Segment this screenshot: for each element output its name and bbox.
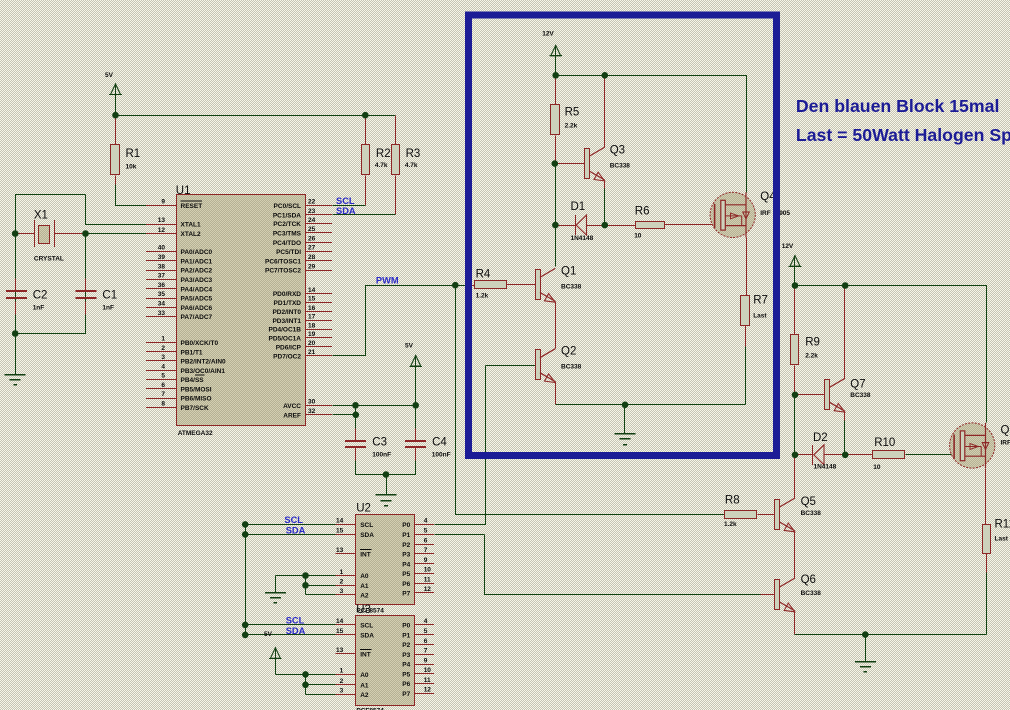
junction bottom rail / ground — [12, 330, 19, 337]
svg-text:PA2/ADC2: PA2/ADC2 — [181, 268, 213, 275]
svg-text:PD6/ICP: PD6/ICP — [276, 344, 302, 351]
svg-text:R6: R6 — [635, 206, 650, 218]
U1 pin 1 PB0/XCK/T0 — [146, 336, 218, 347]
svg-text:P3: P3 — [402, 652, 410, 659]
svg-text:SDA: SDA — [336, 206, 356, 216]
svg-text:9: 9 — [424, 657, 428, 664]
junction D2 anode — [792, 452, 799, 459]
U1 pin 36 PA4/ADC4 — [146, 282, 213, 293]
svg-text:5V: 5V — [264, 631, 273, 638]
svg-text:5: 5 — [424, 628, 428, 635]
U1 pin 32 AREF — [283, 408, 332, 419]
svg-text:7: 7 — [424, 648, 428, 655]
resistor R8 — [724, 495, 757, 528]
junction bottom rail / ground — [862, 631, 869, 638]
wire U2 A0 — [276, 575, 336, 577]
svg-text:Last = 50Watt Halogen Spot: Last = 50Watt Halogen Spot — [796, 125, 1010, 145]
svg-text:13: 13 — [336, 547, 344, 554]
svg-text:RESET: RESET — [181, 203, 203, 210]
wire Q7 emitter lead — [844, 412, 846, 421]
svg-text:29: 29 — [308, 263, 316, 270]
wire Q4 drain to R7 — [746, 238, 748, 296]
svg-text:15: 15 — [336, 528, 344, 535]
svg-text:PC2/TCK: PC2/TCK — [273, 221, 301, 228]
diode D2 — [813, 432, 837, 471]
svg-text:33: 33 — [158, 310, 166, 317]
svg-text:PB1/T1: PB1/T1 — [181, 349, 203, 356]
svg-text:14: 14 — [308, 287, 316, 294]
wire SDA net (pin23 to R3) — [333, 214, 396, 216]
wire PWM branch to R8 — [456, 286, 725, 515]
U2 pin 1 A0 — [336, 569, 369, 580]
U1 pin 22 PC0/SCL — [274, 199, 332, 210]
svg-text:36: 36 — [158, 282, 166, 289]
svg-text:PD5/OC1A: PD5/OC1A — [268, 336, 301, 343]
wire ground stem (crystal) — [15, 334, 17, 375]
svg-text:2.2k: 2.2k — [565, 123, 578, 130]
wire 12V arrow stem — [555, 56, 557, 76]
svg-text:PB2/INT2/AIN0: PB2/INT2/AIN0 — [181, 359, 227, 366]
svg-text:PD3/INT1: PD3/INT1 — [272, 318, 301, 325]
wire Q5 emitter to Q6 collector — [794, 531, 796, 579]
svg-text:PC3/TMS: PC3/TMS — [273, 231, 302, 238]
svg-text:5: 5 — [161, 373, 165, 380]
svg-text:Q8: Q8 — [1001, 425, 1010, 437]
svg-text:A0: A0 — [360, 573, 369, 580]
U1 pin 18 PD4/OC1B — [268, 322, 332, 333]
U1 pin 14 PD0/RXD — [273, 287, 332, 298]
ground (C3 C4) — [376, 495, 397, 506]
svg-text:C3: C3 — [372, 437, 387, 449]
wire R4 left lead — [469, 285, 475, 287]
svg-text:19: 19 — [308, 331, 316, 338]
U1 pin 8 PB7/SCK — [146, 401, 209, 412]
svg-text:905: 905 — [779, 210, 790, 217]
svg-text:17: 17 — [308, 314, 316, 321]
wire XTAL1 path — [86, 195, 147, 225]
svg-text:PD1/TXD: PD1/TXD — [274, 300, 302, 307]
U1 pin 12 XTAL2 — [146, 227, 201, 238]
ground (crystal circuit) — [5, 375, 26, 385]
U3 pin 10 P5 — [402, 667, 434, 678]
resistor R2 — [362, 145, 391, 175]
svg-text:SCL: SCL — [284, 515, 303, 525]
svg-text:10: 10 — [634, 233, 642, 240]
svg-text:P7: P7 — [402, 691, 410, 698]
U1 pin 20 PD6/ICP — [276, 340, 332, 351]
wire ground stem (right) — [865, 635, 867, 662]
wire U3 A2 — [306, 694, 336, 696]
wire R10 to Q8 gate — [906, 454, 954, 456]
svg-text:10: 10 — [873, 464, 881, 471]
junction U2 A1 — [302, 582, 309, 589]
U2 pin 15 SDA — [336, 528, 375, 539]
U1 pin 33 PA7/ADC7 — [146, 310, 213, 321]
svg-text:PA1/ADC1: PA1/ADC1 — [181, 258, 213, 265]
svg-text:23: 23 — [308, 208, 316, 215]
resistor R4 — [475, 269, 507, 300]
junction node 5V rail / R2 — [362, 112, 369, 119]
ground (right) — [855, 662, 876, 672]
svg-text:P1: P1 — [402, 633, 410, 640]
wire Q6 base lead — [761, 594, 775, 596]
wire Q6 emitter lead — [794, 611, 796, 635]
wire Q3 base node to D1 anode — [555, 164, 557, 226]
svg-text:20: 20 — [308, 340, 316, 347]
svg-text:Q5: Q5 — [801, 496, 816, 508]
svg-text:R3: R3 — [406, 148, 421, 160]
U1 pin 34 PA6/ADC6 — [146, 301, 213, 312]
U2 pin 14 SCL — [336, 518, 374, 529]
svg-text:18: 18 — [308, 322, 316, 329]
svg-text:100nF: 100nF — [372, 452, 391, 459]
svg-text:R2: R2 — [376, 148, 391, 160]
svg-text:U2: U2 — [356, 503, 371, 515]
wire AVCC to 5V — [333, 405, 416, 407]
junction emitter rail / ground — [622, 402, 629, 409]
svg-text:9: 9 — [161, 198, 165, 205]
U1 pin 28 PC6/TOSC1 — [265, 254, 332, 265]
junction Q7 emitter / D2 / R10 — [842, 452, 849, 459]
svg-text:12: 12 — [158, 227, 166, 234]
U1 pin 37 PA3/ADC3 — [146, 273, 213, 284]
power 5V arrow (AVCC) — [405, 343, 422, 367]
svg-text:28: 28 — [308, 254, 316, 261]
U1 pin 19 PD5/OC1A — [268, 331, 332, 342]
wire D2 to R10 — [825, 454, 873, 456]
svg-text:16: 16 — [308, 305, 316, 312]
U1 pin 25 PC3/TMS — [273, 226, 332, 237]
svg-text:4.7k: 4.7k — [405, 162, 418, 169]
svg-text:13: 13 — [158, 217, 166, 224]
resistor R3 — [392, 145, 421, 175]
U3 pin 4 P0 — [402, 618, 434, 629]
svg-text:P4: P4 — [402, 662, 410, 669]
svg-text:Q3: Q3 — [610, 145, 625, 157]
svg-text:PC0/SCL: PC0/SCL — [274, 203, 301, 210]
svg-text:PD7/OC2: PD7/OC2 — [273, 353, 301, 360]
svg-text:PD0/RXD: PD0/RXD — [273, 291, 301, 298]
U3 pin 2 A1 — [336, 678, 369, 689]
svg-text:C2: C2 — [33, 289, 48, 301]
wire SCL net (pin22 to R2) — [333, 205, 366, 207]
svg-text:BC338: BC338 — [610, 163, 631, 170]
svg-text:24: 24 — [308, 217, 316, 224]
U1 pin 23 PC1/SDA — [273, 208, 332, 219]
svg-text:X1: X1 — [34, 210, 48, 222]
U3 pin 11 P6 — [402, 677, 434, 688]
wire 5V horizontal rail — [116, 115, 396, 117]
MOSFET Q8 IRF9540 — [950, 423, 1010, 468]
wire Q3 emitter to R6 node — [604, 189, 606, 226]
svg-text:PA3/ADC3: PA3/ADC3 — [181, 277, 213, 284]
svg-text:38: 38 — [158, 263, 166, 270]
wire Q2 collector — [555, 345, 557, 349]
U1 pin 40 PA0/ADC0 — [146, 245, 213, 256]
U1 pin 6 PB5/MOSI — [146, 382, 212, 393]
ground (block) — [615, 434, 636, 445]
wire SCL to U3 — [246, 525, 336, 625]
wire U3 A0 — [276, 674, 336, 676]
junction R9 / Q7 base — [792, 392, 799, 399]
U1 pin 5 PB4/SS — [146, 373, 205, 384]
svg-text:PC4/TDO: PC4/TDO — [273, 240, 301, 247]
U1 pin 17 PD3/INT1 — [272, 314, 332, 325]
wire Q7 base node to D2 anode — [794, 395, 796, 455]
power 5V arrow (U3 address) — [264, 631, 282, 659]
svg-text:PB7/SCK: PB7/SCK — [181, 405, 209, 412]
svg-text:BC338: BC338 — [801, 510, 822, 517]
svg-text:PA6/ADC6: PA6/ADC6 — [181, 305, 213, 312]
svg-text:14: 14 — [336, 618, 344, 625]
wire R1 to RESET pin — [116, 185, 147, 206]
svg-text:8: 8 — [161, 401, 165, 408]
svg-text:P4: P4 — [402, 561, 410, 568]
U1 pin 30 AVCC — [283, 399, 332, 410]
svg-text:10: 10 — [424, 567, 432, 574]
U1 pin 24 PC2/TCK — [273, 217, 332, 228]
svg-text:A1: A1 — [360, 583, 369, 590]
diode D1 — [571, 201, 594, 242]
svg-text:32: 32 — [308, 408, 316, 415]
wire X1 right lead — [55, 233, 86, 235]
svg-text:1.2k: 1.2k — [476, 293, 489, 300]
IC U2 PCF8574 body — [356, 503, 415, 615]
svg-text:13: 13 — [336, 647, 344, 654]
wire R4 to Q1 base — [507, 284, 536, 286]
wire C1 top lead — [85, 279, 87, 292]
svg-text:37: 37 — [158, 273, 166, 280]
U3 pin 6 P2 — [402, 638, 434, 649]
svg-text:35: 35 — [158, 291, 166, 298]
transistor Q3 — [585, 145, 631, 181]
svg-text:ATMEGA32: ATMEGA32 — [178, 430, 213, 437]
svg-text:34: 34 — [158, 301, 166, 308]
svg-text:4: 4 — [424, 618, 428, 625]
svg-text:4.7k: 4.7k — [375, 162, 388, 169]
wire C1 to bottom rail — [85, 315, 87, 334]
wire 5V node to C4 — [415, 406, 417, 429]
svg-text:26: 26 — [308, 235, 316, 242]
U1 pin 26 PC4/TDO — [273, 235, 332, 246]
wire U2 P1 branch — [435, 534, 485, 536]
svg-text:A0: A0 — [360, 672, 369, 679]
svg-text:3: 3 — [340, 588, 344, 595]
svg-text:INT: INT — [360, 652, 371, 659]
wire R9 bottom lead — [794, 366, 796, 395]
junction U3 A1 — [302, 682, 309, 689]
junction crystal left node — [12, 230, 19, 237]
junction AVCC / C3 — [352, 402, 359, 409]
capacitor C3 — [345, 437, 391, 459]
svg-text:C1: C1 — [102, 289, 117, 301]
svg-text:PA5/ADC5: PA5/ADC5 — [181, 296, 213, 303]
wire R1 bottom lead — [115, 176, 117, 185]
wire U2 P0 to Q2 base — [435, 366, 486, 525]
svg-text:P1: P1 — [402, 532, 410, 539]
svg-text:27: 27 — [308, 245, 316, 252]
wire C4 bottom lead — [415, 448, 417, 461]
junction node 5V rail / R1 — [112, 112, 119, 119]
svg-text:U3: U3 — [356, 604, 371, 616]
svg-text:PA7/ADC7: PA7/ADC7 — [181, 314, 213, 321]
U3 pin 9 P4 — [402, 657, 434, 668]
svg-text:PB0/XCK/T0: PB0/XCK/T0 — [181, 340, 219, 347]
svg-text:2: 2 — [340, 678, 344, 685]
wire Q7 collector — [844, 286, 846, 379]
junction 12V rail / R5 — [552, 72, 559, 79]
svg-text:SDA: SDA — [286, 525, 306, 535]
U1 pin 39 PA1/ADC1 — [146, 254, 213, 265]
svg-text:12V: 12V — [542, 31, 554, 38]
svg-text:P5: P5 — [402, 671, 410, 678]
svg-text:IRF9540S: IRF9540S — [1001, 440, 1010, 447]
svg-text:XTAL1: XTAL1 — [181, 222, 201, 229]
junction SCL bus U2 — [242, 521, 249, 528]
wire U2 A0-A2 tie — [305, 576, 307, 595]
capacitor C2 — [6, 289, 47, 311]
wire R5 bottom lead — [555, 136, 557, 164]
svg-text:39: 39 — [158, 254, 166, 261]
svg-text:CRYSTAL: CRYSTAL — [34, 256, 64, 263]
U1 pin 9 RESET — [146, 198, 202, 209]
svg-text:6: 6 — [424, 638, 428, 645]
svg-text:12V: 12V — [782, 243, 794, 250]
junction SCL bus U3 — [242, 622, 249, 629]
svg-text:14: 14 — [336, 518, 344, 525]
wire 12V arrow stem (right) — [794, 267, 796, 286]
junction U2 A0 — [302, 572, 309, 579]
svg-text:12: 12 — [424, 687, 432, 694]
junction crystal right node — [82, 230, 89, 237]
wire R7 to emitter rail — [745, 347, 747, 405]
svg-text:P6: P6 — [402, 581, 410, 588]
U3 pin 7 P3 — [402, 648, 434, 659]
wire ground stem (C3 C4) — [386, 475, 388, 495]
wire R5 top lead — [555, 76, 557, 105]
svg-text:R8: R8 — [725, 495, 740, 507]
svg-text:Last: Last — [995, 536, 1009, 543]
svg-text:10k: 10k — [126, 164, 137, 171]
svg-text:R5: R5 — [565, 107, 580, 119]
svg-text:Q1: Q1 — [561, 266, 576, 278]
svg-text:100nF: 100nF — [432, 452, 451, 459]
svg-text:SCL: SCL — [286, 616, 305, 626]
U1 pin 13 XTAL1 — [146, 217, 201, 228]
wire C3/C4 bottom rail — [356, 461, 416, 475]
svg-text:P2: P2 — [402, 542, 410, 549]
svg-text:7: 7 — [424, 547, 428, 554]
U1 pin 38 PA2/ADC2 — [146, 263, 213, 274]
wire Q3 emitter lead — [604, 181, 606, 189]
wire C2 top lead — [15, 279, 17, 292]
svg-text:A2: A2 — [360, 692, 369, 699]
svg-text:22: 22 — [308, 199, 316, 206]
junction Q3 emitter / D1 / R6 — [602, 222, 609, 229]
wire C2 to bottom rail — [15, 315, 17, 334]
U1 pin 15 PD1/TXD — [274, 296, 332, 307]
resistor R5 — [551, 105, 580, 135]
wire XTAL2 path — [86, 233, 147, 235]
U2 pin 5 P1 — [402, 528, 434, 539]
svg-text:SCL: SCL — [336, 196, 355, 206]
transistor Q7 — [825, 378, 871, 412]
wire 5V arrow to rail — [115, 95, 117, 116]
svg-text:D2: D2 — [813, 432, 828, 444]
junction AVCC / 5V / C4 — [412, 402, 419, 409]
svg-text:BC338: BC338 — [801, 590, 822, 597]
wire R3 top lead — [395, 116, 397, 145]
svg-text:1: 1 — [161, 336, 165, 343]
resistor R9 — [791, 335, 820, 365]
U1 pin 3 PB2/INT2/AIN0 — [146, 354, 226, 365]
svg-text:5: 5 — [424, 528, 428, 535]
wire U2 A0 to ground — [275, 576, 277, 593]
svg-text:2.2k: 2.2k — [805, 353, 818, 360]
svg-text:Q2: Q2 — [561, 346, 576, 358]
wire U3 A0-A2 tie — [305, 675, 307, 695]
svg-text:6: 6 — [161, 382, 165, 389]
transistor Q1 — [536, 266, 582, 303]
wire U2 A1 — [306, 585, 336, 587]
svg-text:SDA: SDA — [360, 532, 374, 539]
U2 pin 6 P2 — [402, 537, 434, 548]
U3 pin 12 P7 — [402, 687, 434, 698]
svg-text:P0: P0 — [402, 623, 410, 630]
transistor Q6 — [775, 574, 822, 612]
svg-text:P6: P6 — [402, 681, 410, 688]
svg-text:R4: R4 — [476, 269, 491, 281]
wire R2 top lead — [365, 116, 367, 145]
wire C4 top lead — [415, 429, 417, 441]
wire D1 anode lead — [556, 225, 576, 227]
svg-text:BC338: BC338 — [850, 392, 871, 399]
svg-text:PD4/OC1B: PD4/OC1B — [268, 327, 301, 334]
power 5V arrow (R1 rail) — [105, 72, 122, 95]
MOSFET Q4 IRF9540 — [710, 191, 790, 238]
wire C2 bottom lead — [15, 302, 17, 315]
svg-text:PC7/TOSC2: PC7/TOSC2 — [265, 268, 301, 275]
wire D2 anode lead — [795, 454, 813, 456]
svg-text:4: 4 — [424, 518, 428, 525]
svg-text:AREF: AREF — [283, 412, 301, 419]
svg-text:R10: R10 — [874, 437, 895, 449]
svg-text:IRF: IRF — [760, 210, 771, 217]
svg-text:Last: Last — [753, 313, 767, 320]
junction 12V rail / Q3 collector — [602, 72, 609, 79]
wire R2 bottom lead to SCL — [365, 176, 367, 206]
U2 pin 10 P5 — [402, 567, 434, 578]
svg-text:PB4/SS: PB4/SS — [181, 377, 205, 384]
svg-text:3: 3 — [161, 354, 165, 361]
svg-text:1nF: 1nF — [33, 305, 45, 312]
U2 pin 7 P3 — [402, 547, 434, 558]
power 12V arrow (block) — [542, 31, 562, 56]
wire Q1 collector to D1 node — [555, 226, 557, 267]
svg-text:XTAL2: XTAL2 — [181, 231, 201, 238]
svg-text:R11: R11 — [995, 519, 1010, 531]
svg-text:P2: P2 — [402, 642, 410, 649]
svg-text:PC1/SDA: PC1/SDA — [273, 213, 301, 220]
svg-text:15: 15 — [336, 628, 344, 635]
U3 pin 1 A0 — [336, 668, 369, 679]
wire Q2 base — [486, 365, 536, 367]
junction 12V right / Q7 collector — [842, 282, 849, 289]
wire C3 top lead — [355, 429, 357, 441]
wire PWM net (pin21 to R4) — [333, 286, 469, 356]
svg-text:SCL: SCL — [360, 522, 373, 529]
svg-text:30: 30 — [308, 399, 316, 406]
